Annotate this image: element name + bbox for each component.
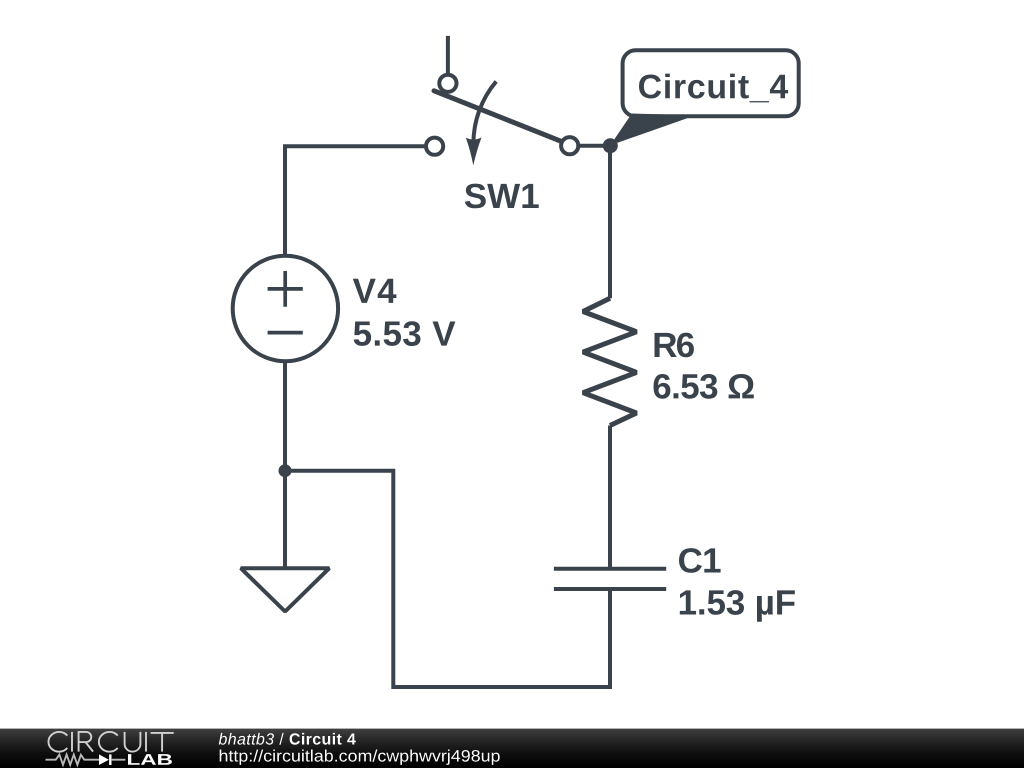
wire V4 bottom to ground junction [283,363,287,471]
footer url text [220,750,500,765]
label callout text Circuit_4 [639,74,788,103]
logo letter C [48,732,67,752]
wire top stub of SW1 [446,36,450,83]
switch SW1 terminal circle right (common) [561,137,578,154]
logo letter U [125,732,141,752]
logo CIRCUIT wordmark [48,732,173,752]
logo diode cathode bar [109,754,111,765]
wire from V4 top to switch left terminal [285,146,435,254]
label V4 value 5.53 V [354,321,456,346]
logo letter I [145,732,147,752]
node junction dot at switch common / Circuit_4 [603,138,618,153]
ground symbol triangle [241,568,329,611]
wire from switch common to node [578,144,611,148]
switch SW1 arrowhead [466,137,482,165]
footer title text [219,733,356,745]
label C1 [679,548,721,573]
label SW1 [465,184,539,209]
logo wire after diode [111,759,125,761]
node junction dot at V4 bottom [279,464,292,477]
switch SW1 terminal circle left [426,138,443,155]
capacitor C1 top plate [554,567,666,571]
V4 minus sign [268,331,303,335]
label R6 [655,333,694,358]
wire junction to ground symbol [283,471,287,569]
logo letter T [151,733,174,752]
logo LAB text [128,754,172,765]
switch SW1 arrow arc [473,81,496,144]
logo letter C [99,732,118,752]
wire junction right then down to bottom rail [285,471,610,687]
logo letter I [71,732,73,752]
label V4 [353,279,397,303]
label C1 value 1.53 uF [680,590,795,622]
label callout pointer wedge [610,114,695,146]
logo waveform resistor zigzag [46,755,100,765]
voltage source V4 circle [233,256,338,361]
capacitor C1 bottom plate [554,587,666,591]
switch SW1 terminal circle top [439,75,456,92]
label R6 value 6.53 Ohm [654,374,754,399]
V4 plus sign [268,271,303,307]
switch SW1 lever [434,91,569,145]
logo letter R [79,732,94,752]
wire node to resistor R6 top [608,146,612,299]
resistor R6 zigzag [583,298,637,425]
label callout Circuit_4 box [623,50,799,116]
wire resistor R6 bottom to capacitor C1 top [608,426,612,569]
logo diode symbol [99,754,109,765]
